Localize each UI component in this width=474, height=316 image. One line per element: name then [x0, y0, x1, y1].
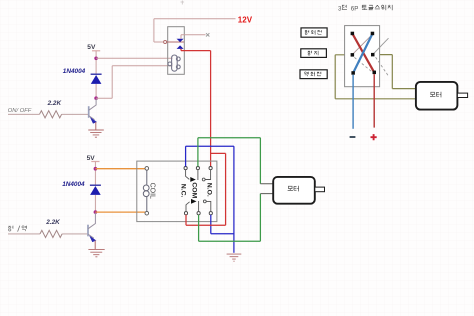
wire 5V down to diode cathode: [95, 51, 97, 74]
wire emitter of Q1 to ground: [95, 122, 97, 130]
wire relay K1 N.C. stub: [181, 35, 206, 39]
title 3단 6P 토글스위치: [338, 5, 392, 12]
transistor Q1 NPN: [89, 99, 97, 123]
switch SW1 body: [345, 26, 380, 87]
wire 12V to relay K1 common: [154, 19, 236, 42]
label box 정지: [301, 49, 327, 58]
wire motor M1 terminal stubs: [260, 184, 273, 194]
label minus: [350, 136, 356, 138]
svg-text:COIL: COIL: [148, 183, 155, 199]
relay K2 coil: [143, 170, 149, 211]
olive wire: mid-right pin to motor M2 upper terminal: [375, 55, 417, 89]
wire base lead of Q2: [8, 233, 87, 235]
relay K1 common pivot circle: [164, 41, 167, 44]
label 모터 (motor M2): [430, 92, 441, 98]
motor M2 body: [416, 82, 458, 110]
switch pin mid-right: [371, 53, 375, 57]
battery wire plus (red): [373, 74, 375, 128]
switch pin bottom-right: [373, 71, 377, 75]
wire 5V down to diode D2: [94, 162, 96, 186]
wire collector node to relay K2 coil pin B (orange): [95, 211, 145, 213]
wire collector node to relay K1 coil pin B: [96, 66, 172, 99]
svg-text:1N4004: 1N4004: [62, 181, 85, 188]
svg-text:2.2K: 2.2K: [45, 219, 60, 226]
node junction at bottom 5V rail: [94, 167, 98, 171]
node junction at 5V rail: [94, 57, 98, 61]
node junction collector of Q1: [94, 96, 98, 100]
svg-text:5V: 5V: [87, 44, 96, 51]
svg-text:2.2K: 2.2K: [47, 100, 62, 107]
wire 5V rail to relay K1 coil pin A: [96, 57, 172, 59]
motor M1 shaft: [315, 187, 325, 192]
switch pin bottom-left: [351, 71, 355, 75]
label 모터 (motor M1): [288, 186, 299, 192]
label plus: [371, 134, 377, 140]
wire diode anode to collector node: [95, 84, 97, 98]
wire green net: top COM to motor terminal A: [198, 138, 261, 184]
switch pin top-left: [351, 32, 355, 36]
relay K2 contact pins bottom row: [184, 212, 212, 215]
diode D1 1N4004 cathode bar: [91, 73, 102, 75]
relay K2 contact pins top row (N.C. COM N.O.): [184, 167, 212, 170]
switch pin mid-left: [351, 53, 355, 57]
svg-text:ON/ OFF: ON/ OFF: [8, 108, 32, 114]
cross wire red (top-left to bottom-right): [353, 34, 375, 72]
resistor R2 2.2K: [40, 230, 62, 237]
diode D2 1N4004 cathode bar: [90, 184, 101, 186]
diode D2 1N4004 body: [90, 186, 101, 195]
relay K2 coil pin 2: [145, 211, 149, 215]
power 5V T-bar symbol (bottom): [91, 161, 99, 163]
relay K2 body (DPDT): [137, 161, 217, 222]
power 5V T-bar symbol: [92, 50, 100, 52]
wire emitter of Q2 to ground: [94, 240, 96, 249]
wire diode D2 anode to collector node: [94, 195, 96, 212]
battery wire minus (blue): [352, 75, 354, 129]
motor M1 body: [273, 177, 315, 204]
ground GND2: [88, 249, 104, 256]
svg-text:1N4004: 1N4004: [63, 68, 86, 75]
switch pin top-right: [371, 32, 375, 36]
stray mark top edge: [181, 1, 185, 5]
wire blue net: bottom N.O. pin to right vertical: [211, 215, 234, 234]
cross wire blue (top-right to bottom-left): [353, 34, 372, 73]
lever line solid (mid-right outward): [374, 38, 389, 53]
lever line dashed (mid-left to bottom-right): [354, 57, 371, 71]
wire blue net: right vertical to ground: [233, 146, 235, 253]
wire blue net: top N.C. pin up and right: [186, 146, 234, 166]
relay K1 coil: [168, 55, 180, 71]
svg-text:3: 3: [338, 5, 342, 12]
relay K2 coil pin 1: [145, 167, 149, 171]
wire red net: tee to bottom N.C. pin: [186, 153, 226, 225]
label FWD/REV input 정/역: [8, 226, 26, 232]
motor M2 shaft: [457, 93, 467, 97]
relay K1 body: [168, 27, 185, 75]
wire base lead of Q1: [8, 113, 88, 115]
label box 역회전: [300, 70, 327, 79]
svg-text:COM: COM: [190, 182, 197, 198]
resistor R1 2.2K: [40, 111, 62, 118]
no-connect X marker: [206, 33, 209, 36]
wire green net: bottom COM to motor terminal B: [199, 194, 261, 242]
wire relay K1 N.O. output (red net to K2): [181, 49, 211, 166]
relay K2 contact 1 (top): [186, 170, 211, 182]
relay K2 contact 2 (bottom): [186, 199, 211, 212]
relay K1 common line: [167, 41, 184, 43]
wire 5V rail to relay K2 coil pin A (orange): [95, 168, 145, 170]
lever line dashed (mid-right outward down): [376, 57, 389, 76]
olive wire: mid-left pin to motor M2 lower terminal: [335, 55, 416, 99]
svg-text:5V: 5V: [87, 155, 96, 162]
transistor Q2 NPN: [88, 213, 96, 242]
svg-text:N.C.: N.C.: [179, 184, 186, 198]
diode D1 1N4004 body: [91, 75, 102, 84]
label box 정회전: [301, 28, 327, 37]
relay K1 contact arrows: [177, 39, 184, 42]
svg-text:6P: 6P: [351, 5, 359, 12]
lever line solid (mid-left to top-right): [353, 35, 371, 53]
svg-text:12V: 12V: [238, 16, 253, 25]
svg-text:N.O.: N.O.: [206, 183, 213, 197]
ground GND1: [88, 130, 104, 137]
node junction collector of Q2: [94, 210, 98, 214]
ground GND3 (blue net): [227, 254, 242, 261]
